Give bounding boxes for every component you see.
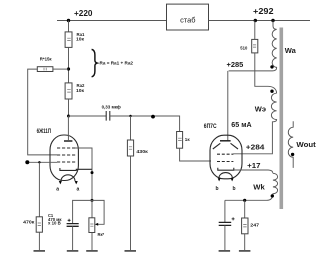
svg-text:a: a bbox=[56, 186, 59, 192]
wire 247 to ground bbox=[244, 234, 246, 251]
resistor 1k grid stopper bbox=[177, 132, 183, 149]
svg-text:430к: 430к bbox=[136, 149, 148, 154]
capacitor C1 electrolytic bbox=[67, 224, 79, 227]
svg-text:Wk: Wk bbox=[253, 182, 265, 191]
resistor R*15k bbox=[37, 67, 53, 72]
wire 510 top bbox=[254, 21, 256, 40]
wire cathode down bbox=[91, 169, 93, 200]
svg-text:x 10 В: x 10 В bbox=[48, 221, 61, 226]
ground 470k bbox=[34, 250, 46, 252]
svg-text:510: 510 bbox=[240, 45, 248, 50]
wire to output cap bbox=[224, 200, 226, 222]
wire cap2 to ground bbox=[224, 225, 226, 250]
node 430k tap bbox=[129, 115, 131, 117]
tube V1 anode plate bbox=[64, 140, 72, 142]
wire +220 rail bbox=[57, 20, 167, 22]
wire R15k right to junction bbox=[53, 68, 69, 70]
wire R15k left down to grid2 of tube1 bbox=[28, 69, 57, 155]
svg-text:247: 247 bbox=[250, 222, 259, 227]
tube V2 anode plate bbox=[220, 140, 231, 142]
winding Wa bbox=[229, 21, 277, 71]
wire +292 rail bbox=[209, 20, 311, 22]
plus mark C1 bbox=[68, 219, 71, 222]
heater V2 right lead arrow bbox=[231, 178, 234, 181]
capacitor cathode2 electrolytic bbox=[219, 222, 232, 225]
tube V1 heater bbox=[61, 175, 75, 181]
heater V2 left lead arrow bbox=[218, 178, 221, 181]
resistor 470k grid leak bbox=[36, 217, 42, 232]
svg-text:470к: 470к bbox=[23, 219, 35, 224]
svg-text:1к: 1к bbox=[185, 137, 191, 142]
svg-text:R*15к: R*15к bbox=[40, 57, 52, 62]
wiper loop Rk bbox=[92, 200, 104, 224]
svg-text:10к: 10к bbox=[76, 37, 85, 42]
svg-text:Wout: Wout bbox=[296, 140, 316, 149]
wire 430k to ground bbox=[130, 156, 132, 250]
tube V1 grid g1 dashes bbox=[57, 161, 75, 163]
node input terminal dot bbox=[25, 160, 29, 164]
node Wout phase dot bbox=[291, 153, 294, 156]
brace Ra sum bbox=[92, 49, 98, 76]
resistor 510 bbox=[252, 39, 258, 53]
wire 510 bottom to Wz top bbox=[255, 53, 277, 93]
svg-text:Ra = Ra1 + Ra2: Ra = Ra1 + Ra2 bbox=[100, 61, 134, 66]
wire g1 input bbox=[27, 161, 57, 163]
svg-text:10к: 10к bbox=[76, 88, 85, 93]
tube V1 grid g3 dashes bbox=[57, 147, 75, 149]
tube V2 cathode bbox=[218, 168, 234, 170]
svg-text:+284: +284 bbox=[246, 142, 266, 151]
wiper arrowhead bbox=[95, 223, 98, 226]
resistor 430k bbox=[127, 140, 133, 156]
svg-text:a: a bbox=[77, 186, 80, 192]
wire g1 to 470k bbox=[38, 162, 40, 217]
resistor Ra1 bbox=[65, 32, 72, 48]
node cathode1 RC junction bbox=[91, 199, 94, 202]
transformer core bbox=[280, 28, 284, 210]
ground 430k bbox=[125, 250, 137, 252]
resistor 247 bbox=[242, 218, 248, 234]
node Wa phase dot bbox=[270, 65, 273, 68]
winding Wz bbox=[233, 93, 276, 154]
tube V2 g1 dashes bbox=[217, 161, 233, 163]
plus mark cap2 bbox=[232, 217, 235, 220]
tube V1 cathode bbox=[60, 168, 92, 170]
node junction Wa bbox=[271, 19, 274, 22]
svg-text:6Ж11П: 6Ж11П bbox=[37, 128, 52, 135]
winding Wout bbox=[288, 121, 293, 168]
wire anode2 vertical bbox=[227, 71, 229, 141]
node cathode/g3 junction bbox=[91, 171, 94, 174]
wire Rk to ground bbox=[91, 233, 93, 251]
ground C1 bbox=[67, 250, 79, 252]
node junction Ra1-Ra2 / R*15k bbox=[67, 67, 70, 70]
tube V2 g2 dashes bbox=[217, 153, 233, 155]
wire g3 to cathode line bbox=[75, 148, 92, 173]
svg-text:+292: +292 bbox=[253, 7, 274, 16]
svg-text:Wa: Wa bbox=[285, 46, 297, 55]
svg-text:b: b bbox=[216, 186, 219, 192]
wire cathode2 to Wk bbox=[234, 170, 273, 173]
node 470k tap bbox=[38, 161, 40, 163]
resistor Ra2 bbox=[65, 83, 72, 99]
wire 1k to grid1 of tube2 bbox=[180, 148, 211, 161]
svg-text:+285: +285 bbox=[227, 62, 244, 69]
tube V2 beam plates bbox=[213, 143, 238, 149]
node Wz phase dot bbox=[270, 90, 273, 93]
wire 470k to ground bbox=[38, 232, 40, 250]
svg-text:+220: +220 bbox=[74, 9, 93, 18]
tube V1 envelope bbox=[50, 135, 78, 181]
node Wk phase dot bbox=[271, 194, 274, 197]
winding Wk bbox=[225, 173, 278, 200]
wire Ra2 bottom to node bbox=[68, 99, 70, 116]
tube V2 heater bbox=[219, 173, 232, 178]
node cathode2 RC junction bbox=[243, 199, 246, 202]
wire cathode node to Rk bbox=[91, 200, 93, 217]
wire node to coupling cap bbox=[69, 115, 107, 117]
ground 247 bbox=[239, 250, 251, 252]
svg-text:6П7С: 6П7С bbox=[204, 124, 217, 130]
node anode1 junction bbox=[67, 115, 70, 118]
tube V2 envelope bbox=[210, 135, 242, 179]
tube V1 grid g2 dashes bbox=[57, 154, 75, 156]
svg-text:0,33 мкф: 0,33 мкф bbox=[102, 103, 122, 110]
node junction 510 bbox=[254, 19, 257, 22]
svg-text:стаб: стаб bbox=[180, 16, 195, 25]
node junction +220/Ra1 bbox=[67, 19, 70, 22]
wire C1 to ground bbox=[72, 226, 74, 250]
wire Ra1 to Ra2 bbox=[68, 47, 70, 83]
heater V1 left lead arrow bbox=[59, 181, 62, 184]
ground cap2 bbox=[219, 250, 231, 252]
svg-text:Wэ: Wэ bbox=[255, 105, 266, 114]
resistor Rk* variable bbox=[89, 218, 95, 233]
wire cathode node to C1 bbox=[73, 200, 92, 223]
heater V1 right lead arrow bbox=[75, 181, 78, 184]
ground Rk bbox=[86, 250, 98, 252]
wire rail to Ra1 bbox=[68, 21, 70, 32]
wire 430k top bbox=[130, 116, 132, 140]
svg-text:+17: +17 bbox=[247, 161, 260, 170]
capacitor 0,33 bbox=[106, 111, 110, 121]
svg-text:Rк*: Rк* bbox=[98, 232, 105, 237]
wire anode1 lead bbox=[67, 116, 69, 141]
svg-text:b: b bbox=[233, 186, 236, 192]
node grid2 feed dot bbox=[151, 115, 155, 119]
wire 247 top bbox=[244, 200, 246, 218]
block stab power supply bbox=[167, 4, 209, 30]
svg-text:65 мА: 65 мА bbox=[231, 122, 251, 129]
wire cap to grid stopper corner bbox=[110, 116, 180, 132]
